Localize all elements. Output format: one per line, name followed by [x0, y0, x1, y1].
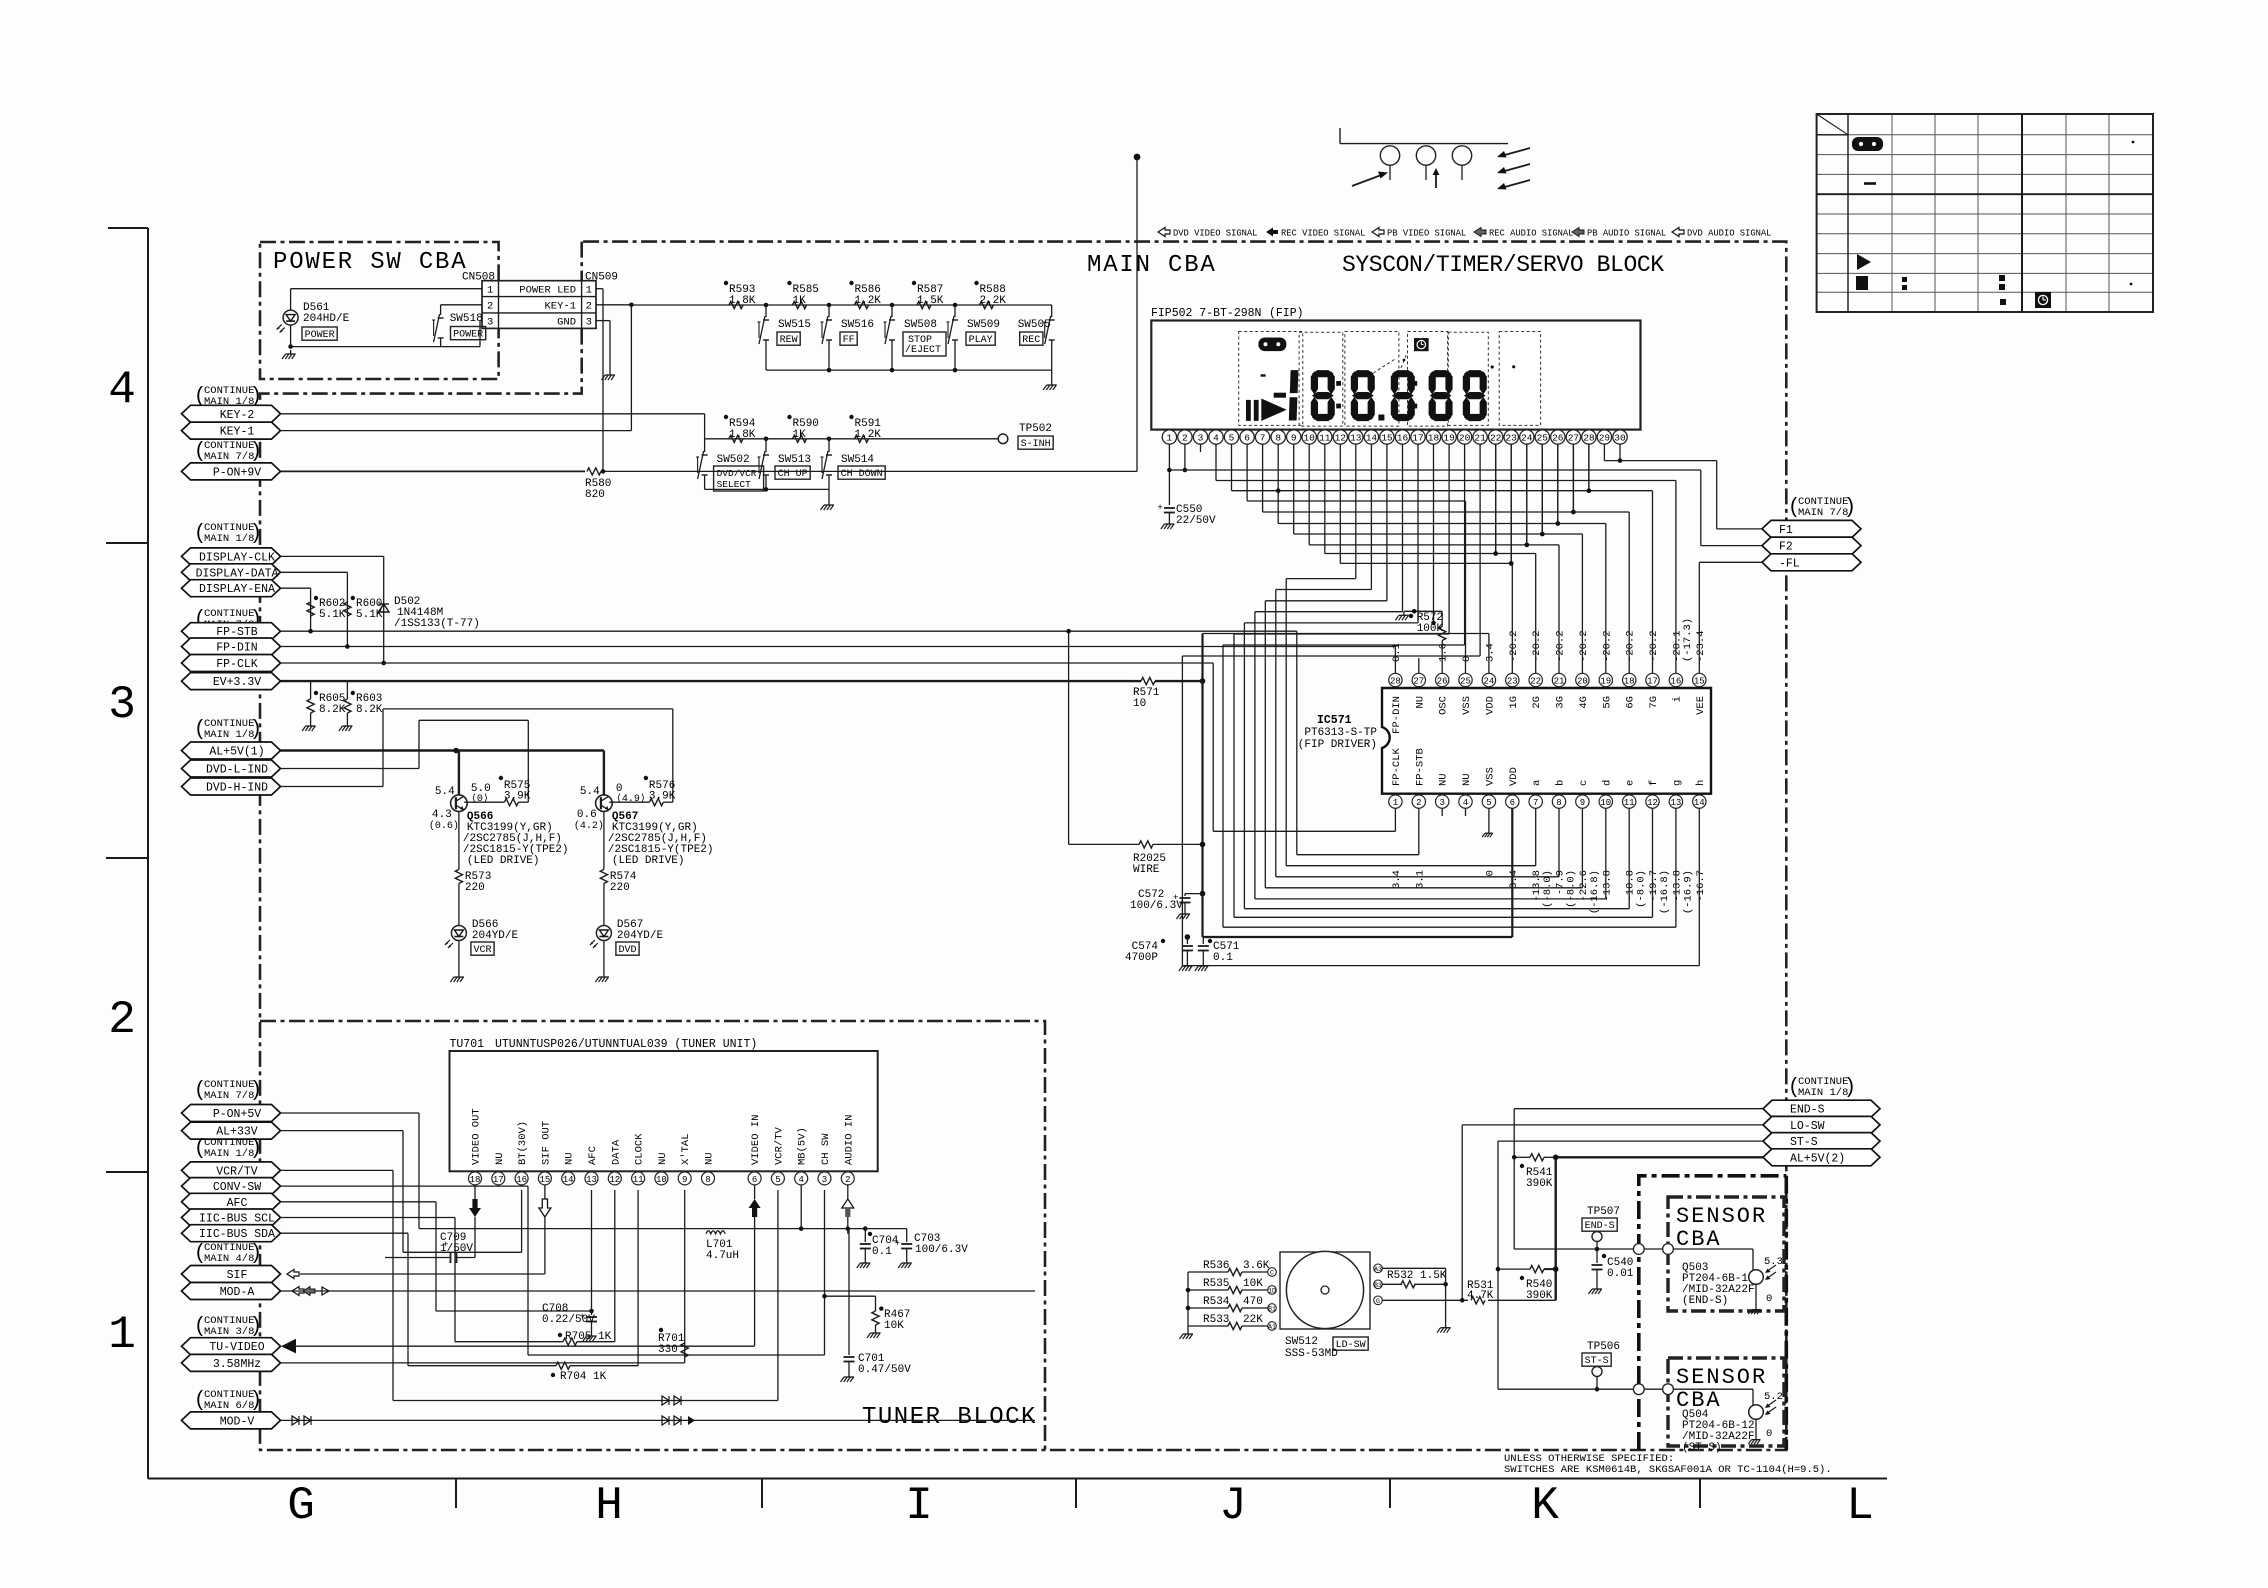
svg-text:3.4: 3.4: [1484, 643, 1496, 662]
svg-text:20: 20: [1459, 433, 1471, 444]
svg-text:3.4: 3.4: [1508, 870, 1520, 889]
svg-text:6G: 6G: [1625, 696, 1637, 709]
svg-text:8.2K: 8.2K: [319, 704, 346, 716]
svg-text:2: 2: [1416, 798, 1421, 808]
svg-text:5: 5: [1229, 433, 1235, 444]
svg-text:FP-DIN: FP-DIN: [216, 642, 257, 655]
svg-text:L: L: [1846, 1480, 1874, 1532]
test point TP502 (S-INH): [998, 434, 1008, 444]
svg-text:0.1: 0.1: [872, 1246, 892, 1258]
wire FIP pin 28 join rail: [1588, 444, 1590, 491]
svg-text:-20.2: -20.2: [1601, 630, 1613, 662]
legend arrow REC AUDIO SIGNAL: [1474, 228, 1486, 237]
FIP digit 8 (3): [1392, 370, 1414, 377]
svg-text:470: 470: [1243, 1296, 1263, 1308]
svg-text:MAIN CBA: MAIN CBA: [1087, 252, 1217, 279]
resistor R576 3.9K: [609, 801, 649, 803]
svg-text:17: 17: [1647, 676, 1658, 686]
svg-text:MAIN 1/8: MAIN 1/8: [204, 1148, 254, 1160]
svg-text:VDD: VDD: [1508, 767, 1520, 786]
svg-text:1K: 1K: [793, 429, 807, 441]
svg-text:1.2K: 1.2K: [855, 295, 882, 307]
svg-text:15: 15: [1694, 676, 1705, 686]
wire -FL to VEE column: [1699, 561, 1762, 563]
svg-text:1: 1: [1167, 433, 1173, 444]
wire FIP pin 11 to IC571 pin 22 (7G): [1324, 444, 1326, 553]
table cassette icon: [1852, 137, 1883, 151]
svg-text:22: 22: [1530, 676, 1541, 686]
flag AFC: [182, 1193, 281, 1210]
svg-text:TP506: TP506: [1587, 1341, 1620, 1353]
switch SW509 (PLAY): [953, 303, 958, 308]
wire FIP pin 22 join rail: [1495, 444, 1497, 553]
svg-text:MAIN 3/8: MAIN 3/8: [204, 1326, 254, 1338]
svg-text:KEY-1: KEY-1: [220, 426, 255, 439]
svg-text:15: 15: [539, 1175, 550, 1185]
svg-text:8.2K: 8.2K: [356, 704, 383, 716]
table stop icon: [1856, 276, 1868, 290]
svg-text:1/50V: 1/50V: [440, 1243, 473, 1255]
svg-text:3: 3: [108, 679, 136, 731]
svg-text:END-S: END-S: [1790, 1104, 1825, 1117]
svg-text:9: 9: [1580, 798, 1585, 808]
svg-text:0.1: 0.1: [1213, 952, 1233, 964]
ground switch row1: [1051, 370, 1053, 381]
svg-text:PB AUDIO SIGNAL: PB AUDIO SIGNAL: [1587, 228, 1666, 238]
resistor R603 8.2K: [346, 681, 348, 699]
FIP period: [1378, 415, 1384, 421]
wire FIP pins 29+30 rail to F1: [1603, 444, 1605, 460]
svg-text:MOD-V: MOD-V: [220, 1415, 255, 1428]
resistor R602 5.1K: [307, 602, 314, 616]
junction dot near filament feed: [1134, 154, 1141, 161]
svg-text:DVD-L-IND: DVD-L-IND: [206, 764, 268, 777]
LED D567 204YD/E (DVD): [603, 883, 605, 925]
svg-text:29: 29: [1599, 433, 1611, 444]
svg-text:0: 0: [1766, 1428, 1772, 1440]
svg-text:FP-CLK: FP-CLK: [1391, 747, 1403, 786]
svg-text:(: (: [196, 717, 203, 740]
svg-text:1.5K: 1.5K: [917, 295, 944, 307]
svg-text:0.01: 0.01: [1607, 1268, 1634, 1280]
resistor R585 1K: [793, 301, 807, 308]
svg-text:FP-DIN: FP-DIN: [1391, 696, 1403, 734]
arrow to filament 1: [1352, 174, 1384, 186]
svg-text:17: 17: [493, 1175, 504, 1185]
svg-text:SW516: SW516: [841, 319, 874, 331]
table play icon: [1857, 254, 1871, 270]
wire AL+5V(1) thick: [281, 749, 604, 751]
svg-text:G: G: [287, 1480, 315, 1532]
wire FIP pin 18 join rail: [1433, 444, 1435, 623]
drawing border frame: [147, 228, 149, 1479]
svg-text:6: 6: [752, 1175, 757, 1185]
svg-text:d: d: [1601, 780, 1613, 786]
svg-text:15: 15: [1381, 433, 1393, 444]
svg-text:SW513: SW513: [778, 454, 811, 466]
capacitor C703 100/6.3V: [906, 1229, 908, 1242]
svg-text:R534: R534: [1203, 1296, 1230, 1308]
svg-text:21: 21: [1474, 433, 1486, 444]
wire LO-SW: [1462, 1124, 1763, 1126]
flag DISPLAY-ENA: [182, 580, 281, 597]
svg-text:GND: GND: [557, 316, 576, 328]
capacitor C572 100/6.3V: [1200, 891, 1206, 897]
switch SW513 (CH UP): [764, 437, 769, 442]
svg-text:(-16.9): (-16.9): [1682, 870, 1694, 914]
wire FP-CLK: [281, 662, 1214, 664]
svg-text:3.58MHz: 3.58MHz: [213, 1358, 261, 1371]
svg-text:R705 1K: R705 1K: [565, 1331, 612, 1343]
wire ST-S: [1498, 1140, 1763, 1142]
svg-text:CH SW: CH SW: [820, 1133, 832, 1165]
flag IIC-BUS SCL: [182, 1209, 281, 1226]
IC571 top pin circles and labels: [1693, 673, 1706, 686]
svg-text:VSS: VSS: [1484, 767, 1496, 786]
wire KEY-2: [281, 413, 705, 415]
svg-text:IC571: IC571: [1317, 714, 1352, 727]
svg-text:(LED DRIVE): (LED DRIVE): [612, 855, 685, 867]
svg-text:27: 27: [1568, 433, 1579, 444]
svg-text:SWITCHES ARE KSM0614B, SKGSAF0: SWITCHES ARE KSM0614B, SKGSAF001A OR TC-…: [1504, 1464, 1832, 1476]
svg-text:P-ON+9V: P-ON+9V: [213, 466, 261, 479]
svg-text:SYSCON/TIMER/SERVO BLOCK: SYSCON/TIMER/SERVO BLOCK: [1342, 252, 1664, 278]
svg-text:MAIN 7/8: MAIN 7/8: [204, 1090, 254, 1102]
svg-text:TP507: TP507: [1587, 1206, 1620, 1218]
flag DVD-L-IND: [182, 760, 281, 777]
svg-text:NU: NU: [564, 1152, 576, 1165]
svg-text:+: +: [1157, 503, 1162, 513]
resistor R2025 WIRE: [1066, 629, 1071, 634]
wire IIC-BUS SCL with R705: [281, 1217, 456, 1219]
svg-text:26: 26: [1437, 676, 1448, 686]
svg-text:h: h: [1695, 780, 1707, 786]
wire FIP pin 3 stub: [1200, 444, 1202, 452]
svg-text:R533: R533: [1203, 1314, 1229, 1326]
svg-text:4.3: 4.3: [432, 809, 452, 821]
svg-text:8: 8: [1275, 433, 1281, 444]
wire FIP pin 21 to IC571 pin 14 (segment h): [1479, 444, 1481, 656]
wire IIC-BUS SDA with R704: [281, 1232, 409, 1234]
wire FIP pin 26 join rail: [1557, 444, 1559, 523]
wire AL+5V(2) thick: [1556, 1156, 1763, 1158]
arrow SIF OUT: [544, 1185, 546, 1199]
svg-text:10: 10: [1303, 433, 1315, 444]
svg-text:22: 22: [1490, 433, 1502, 444]
svg-text:WIRE: WIRE: [1133, 864, 1160, 876]
svg-text:16: 16: [1397, 433, 1409, 444]
wire VDD thick to IC571 pin 6: [1203, 936, 1513, 938]
resistor R600 5.1K: [344, 602, 351, 616]
svg-text:7G: 7G: [1648, 696, 1660, 709]
arrow VIDEO IN: [749, 1199, 761, 1208]
svg-text:(: (: [196, 1241, 203, 1264]
svg-text:10: 10: [656, 1175, 667, 1185]
wire FIP pin 24 join: [1526, 444, 1528, 545]
svg-text:19: 19: [1443, 433, 1455, 444]
svg-text:-20.2: -20.2: [1531, 630, 1543, 662]
wire KEY-2 rail: [705, 438, 998, 440]
wire MOD-A with bead: [281, 1290, 1036, 1292]
svg-text:BT(30V): BT(30V): [517, 1121, 529, 1165]
resistor R540 390K: [1544, 1268, 1556, 1270]
svg-text:SW505: SW505: [1018, 319, 1051, 331]
svg-text:4.7uH: 4.7uH: [706, 1250, 739, 1262]
junction FIP pin 8 on rail 490.7: [1276, 488, 1281, 493]
svg-text:1.8K: 1.8K: [729, 295, 756, 307]
svg-text:MOD-A: MOD-A: [220, 1286, 255, 1299]
svg-text:⟨0⟩: ⟨0⟩: [471, 793, 489, 805]
svg-text:4: 4: [1463, 798, 1468, 808]
svg-text:SENSOR: SENSOR: [1676, 1365, 1767, 1390]
svg-text:DVD/VCR: DVD/VCR: [717, 468, 757, 479]
TU701 pin circles and labels: [469, 1172, 482, 1185]
svg-text:10: 10: [1133, 698, 1146, 710]
svg-text:c: c: [1578, 780, 1590, 786]
wire FIP pin 6 to IC571 pin 25 rail: [1246, 444, 1248, 501]
wire MOD-V with diodes: [281, 1419, 1036, 1421]
flag F2: [1762, 537, 1861, 554]
ground at D561: [288, 344, 293, 349]
capacitor C550 22/50V: [1168, 444, 1170, 470]
svg-text:4: 4: [108, 364, 136, 416]
svg-text:AUDIO IN: AUDIO IN: [843, 1115, 855, 1165]
wire FIP pin 20 to IC571 pin 13 (segment g): [1464, 444, 1466, 645]
wire FIP pin 23 join rail: [1510, 444, 1512, 563]
svg-text:POWER: POWER: [453, 330, 483, 341]
flag SIF: [182, 1266, 281, 1283]
svg-text:(-17.3): (-17.3): [1682, 618, 1694, 662]
svg-text:9: 9: [682, 1175, 687, 1185]
svg-text:(: (: [1790, 1075, 1797, 1098]
svg-text:SW509: SW509: [967, 319, 1000, 331]
svg-text:11: 11: [633, 1175, 644, 1185]
svg-text:3G: 3G: [1555, 696, 1567, 709]
svg-text:f: f: [1648, 780, 1660, 786]
svg-text:4: 4: [798, 1175, 803, 1185]
wire CN509-2 / KEY-1 node: [596, 304, 631, 306]
wire AFC: [281, 1201, 437, 1203]
wire FIP pin 19 to IC571 pin 12 (segment f): [1448, 444, 1450, 634]
IC571 bottom pin circles and labels: [1389, 795, 1402, 808]
svg-text:3: 3: [1439, 798, 1444, 808]
wire SW512 A3 to ground column: [1382, 1267, 1445, 1269]
svg-text:/EJECT: /EJECT: [905, 344, 941, 356]
svg-text:SW514: SW514: [841, 454, 874, 466]
svg-text:1: 1: [108, 1309, 136, 1361]
svg-text:NU: NU: [1438, 773, 1450, 786]
svg-text:(: (: [196, 384, 203, 407]
arrow VIDEO OUT: [474, 1185, 476, 1199]
table colon icons: [1902, 277, 1907, 282]
svg-text:11: 11: [1319, 433, 1331, 444]
wire FIP pin 14 to IC571 pin 8 (segment b): [1370, 444, 1372, 589]
FIP segment compartments (dashed): [1239, 332, 1303, 426]
svg-text:MAIN 1/8: MAIN 1/8: [1798, 1087, 1848, 1099]
wire CN509-3 to ground: [596, 320, 610, 322]
svg-text:VIDEO OUT: VIDEO OUT: [471, 1108, 483, 1165]
svg-text:4: 4: [1213, 433, 1219, 444]
svg-text:S-INH: S-INH: [1021, 439, 1051, 450]
svg-text:2: 2: [586, 301, 592, 313]
svg-text:MAIN 1/8: MAIN 1/8: [204, 533, 254, 545]
svg-text:7: 7: [1533, 798, 1538, 808]
svg-text:DISPLAY-DATA: DISPLAY-DATA: [196, 567, 279, 580]
rotary switch SW512 SSS-53MD (LD-SW): [1280, 1252, 1370, 1329]
svg-text:DISPLAY-CLK: DISPLAY-CLK: [199, 551, 275, 564]
capacitor C571 0.1: [1202, 937, 1204, 944]
capacitor C709 1/50V: [456, 1252, 458, 1263]
legend arrow PB AUDIO SIGNAL: [1572, 228, 1584, 237]
wire AL+33V: [281, 1130, 404, 1132]
wire FP-CLK to IC571 pin 1: [1212, 663, 1214, 831]
flag IIC-BUS SDA: [182, 1225, 281, 1242]
svg-text:PB VIDEO SIGNAL: PB VIDEO SIGNAL: [1387, 228, 1466, 238]
svg-text:22/50V: 22/50V: [1176, 515, 1216, 527]
wire CONV-SW: [281, 1185, 529, 1187]
IC571 pin 27 stub: [1418, 658, 1420, 673]
svg-text:DVD VIDEO SIGNAL: DVD VIDEO SIGNAL: [1173, 228, 1257, 238]
svg-text:28: 28: [1583, 433, 1595, 444]
resistor R575 3.9K: [464, 801, 504, 803]
wire FIP pin 24 join rail: [1526, 444, 1528, 545]
svg-text:220: 220: [610, 882, 630, 894]
svg-text:19: 19: [1600, 676, 1611, 686]
svg-text:TU701: TU701: [450, 1038, 485, 1051]
svg-text:820: 820: [585, 489, 605, 501]
wire FP-DIN to IC571 pin 28: [1394, 647, 1396, 674]
svg-text:UTUNNTUSP026/UTUNNTUAL039 (TUN: UTUNNTUSP026/UTUNNTUAL039 (TUNER UNIT): [495, 1038, 757, 1051]
svg-text:24: 24: [1483, 676, 1494, 686]
svg-text:(: (: [196, 521, 203, 544]
FIP colon 2: [1412, 381, 1417, 386]
svg-text:MAIN 6/8: MAIN 6/8: [204, 1400, 254, 1412]
svg-text:20: 20: [1577, 676, 1588, 686]
wire FIP pin 25 join rail: [1541, 444, 1543, 534]
svg-text:16: 16: [1670, 676, 1681, 686]
FIP filament symbol: [1340, 143, 1508, 145]
svg-text:16: 16: [516, 1175, 527, 1185]
wire FIP pin 8 to IC571 pin 19 (4G): [1277, 444, 1279, 523]
svg-text:⟨4.9⟩: ⟨4.9⟩: [616, 793, 646, 805]
svg-text:2: 2: [108, 994, 136, 1046]
flag FP-CLK: [182, 655, 281, 672]
svg-text:5: 5: [775, 1175, 780, 1185]
svg-text:B3: B3: [1374, 1282, 1382, 1289]
wire FIP pin 7 to IC571 pin 18 (3G): [1262, 444, 1264, 512]
resistor R574 220: [603, 812, 605, 870]
legend arrow DVD VIDEO SIGNAL: [1158, 228, 1170, 237]
svg-text:12: 12: [1335, 433, 1347, 444]
svg-text:1D: 1D: [1268, 1288, 1276, 1295]
svg-text:25: 25: [1537, 433, 1549, 444]
svg-text:0.22/50V: 0.22/50V: [542, 1314, 595, 1326]
wire FIP pin 17 to IC571 pin 11 (segment e): [1417, 444, 1419, 623]
svg-text:X'TAL: X'TAL: [680, 1133, 692, 1165]
svg-text:17: 17: [1412, 433, 1423, 444]
svg-text:SW508: SW508: [904, 319, 937, 331]
svg-text:(-16.8): (-16.8): [1589, 870, 1601, 914]
svg-text:18: 18: [1624, 676, 1635, 686]
flag P-ON+5V: [182, 1105, 281, 1122]
svg-text:30: 30: [1614, 433, 1626, 444]
switch SW508 (STOP): [890, 303, 895, 308]
capacitor C701 0.47/50V: [848, 1229, 850, 1355]
svg-text:(-8.0): (-8.0): [1542, 870, 1554, 908]
resistor R572 100K (OSC): [1441, 641, 1443, 674]
svg-text:SW502: SW502: [717, 454, 750, 466]
wire FIP pin 22 join: [1495, 444, 1497, 553]
FIP colon 1: [1336, 381, 1341, 386]
svg-text:KEY-2: KEY-2: [220, 409, 255, 422]
wire D561/SW518 common to CN508 pin3: [291, 346, 480, 348]
svg-text:0.6: 0.6: [577, 809, 597, 821]
flag FP-STB: [182, 623, 281, 640]
svg-text:REW: REW: [780, 335, 798, 346]
resistor R594 1.8K: [729, 435, 743, 442]
svg-text:330: 330: [658, 1344, 678, 1356]
svg-text:4G: 4G: [1578, 696, 1590, 709]
svg-text:FP-STB: FP-STB: [1414, 748, 1426, 786]
svg-text:(LED DRIVE): (LED DRIVE): [467, 855, 540, 867]
flag DISPLAY-DATA: [182, 564, 281, 581]
svg-text:REC: REC: [1022, 335, 1040, 346]
table small dots: [2132, 141, 2135, 144]
bead pair on VCR/TV line: [662, 1396, 669, 1405]
svg-text:8: 8: [705, 1175, 710, 1185]
table diagonal: [1817, 114, 1848, 135]
svg-text:(ST-S): (ST-S): [1682, 1442, 1722, 1454]
wire FIP pin 27 join rail: [1572, 444, 1574, 512]
svg-text:27: 27: [1413, 676, 1424, 686]
svg-text:AFC: AFC: [587, 1146, 599, 1165]
svg-text:0.47/50V: 0.47/50V: [858, 1364, 911, 1376]
svg-text:LO-SW: LO-SW: [1790, 1120, 1825, 1133]
SENSOR CBA box 1 border: [1668, 1197, 1784, 1311]
wire FP-STB to IC571 pin 2: [1296, 631, 1298, 855]
FIP digit 8 (2): [1352, 370, 1374, 377]
svg-text:NU: NU: [704, 1152, 716, 1165]
wire END-S line into sensor 1: [1514, 1248, 1639, 1250]
svg-text:220: 220: [465, 882, 485, 894]
svg-text:NU: NU: [1414, 696, 1426, 709]
svg-text:2: 2: [487, 301, 493, 313]
svg-text:VCR/TV: VCR/TV: [216, 1165, 258, 1178]
svg-text:TP502: TP502: [1019, 423, 1052, 435]
table clock icon: [2035, 292, 2051, 308]
flag ST-S: [1763, 1133, 1880, 1150]
svg-text:10K: 10K: [884, 1320, 904, 1332]
wire DISPLAY-CLK: [281, 555, 384, 557]
ground D566: [458, 941, 460, 974]
TUNER BLOCK region dash-dot border: [260, 1021, 1045, 1450]
svg-text:TU-VIDEO: TU-VIDEO: [209, 1341, 264, 1354]
svg-text:204YD/E: 204YD/E: [617, 930, 664, 942]
svg-text:DVD-H-IND: DVD-H-IND: [206, 782, 268, 795]
wire EV+3.3V: [281, 680, 1132, 682]
switch SW502 (DVD/VCR): [704, 439, 706, 452]
svg-text:ST-S: ST-S: [1790, 1136, 1818, 1149]
svg-text:12: 12: [1647, 798, 1658, 808]
capacitor C574 4700P: [1185, 934, 1191, 940]
wire DVD-L-IND to R575: [281, 768, 420, 770]
svg-text:TUNER BLOCK: TUNER BLOCK: [862, 1404, 1037, 1431]
wire SIF: [287, 1270, 299, 1279]
resistor R571 10: [1131, 680, 1141, 682]
svg-text:3: 3: [1198, 433, 1204, 444]
svg-text:VDD: VDD: [1484, 696, 1496, 715]
svg-text:-20.2: -20.2: [1578, 630, 1590, 662]
